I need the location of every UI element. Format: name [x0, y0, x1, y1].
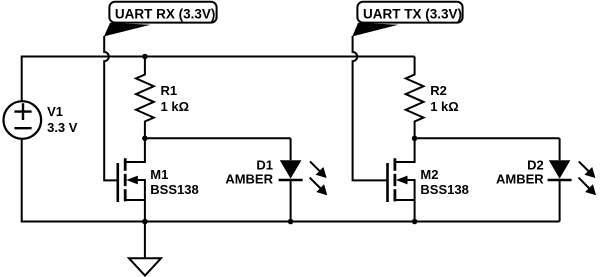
- svg-text:1 kΩ: 1 kΩ: [430, 99, 459, 114]
- wire M2 drain lead: [395, 138, 415, 162]
- svg-text:D1: D1: [256, 158, 273, 173]
- callout tail UART TX: [352, 23, 398, 37]
- transistor M1 arrow: [126, 176, 138, 185]
- wire net UART TX vertical with hop over top rail, to M2 gate: [353, 36, 388, 180]
- label M1 value: [150, 167, 198, 197]
- junction node bottom rail D1: [288, 219, 294, 225]
- wire bottom rail: [22, 221, 560, 223]
- svg-text:UART TX (3.3V): UART TX (3.3V): [363, 6, 462, 21]
- light arrowhead D2 b: [585, 184, 596, 195]
- resistor R1: [136, 57, 154, 139]
- label R2 value: [430, 83, 459, 114]
- svg-text:BSS138: BSS138: [420, 182, 468, 197]
- light arrow D1 a: [310, 161, 321, 172]
- light arrow D2 b: [579, 178, 591, 190]
- wire D2 vertical top: [559, 138, 561, 160]
- diode D2 triangle: [549, 160, 571, 178]
- wire V1 bottom lead to bottom rail: [21, 139, 23, 223]
- transistor M1: [117, 163, 120, 202]
- svg-text:R1: R1: [161, 83, 178, 98]
- svg-text:D2: D2: [527, 158, 544, 173]
- label V1 value: [47, 104, 78, 135]
- svg-text:R2: R2: [430, 83, 447, 98]
- wire top rail: [22, 56, 415, 58]
- transistor M2: [386, 163, 389, 202]
- junction node bottom rail M1 source / ground: [142, 219, 148, 225]
- light arrow D1 b: [310, 178, 322, 190]
- wire D1 vertical top: [290, 138, 292, 160]
- light arrow D2 a: [579, 161, 590, 172]
- svg-text:V1: V1: [47, 104, 63, 119]
- callout box UART TX (3.3V): [357, 2, 462, 23]
- svg-text:1 kΩ: 1 kΩ: [161, 99, 190, 114]
- callout box UART RX (3.3V): [109, 2, 216, 23]
- svg-text:AMBER: AMBER: [225, 172, 273, 187]
- wire M1 drain lead: [125, 138, 145, 162]
- diode D1 triangle: [280, 160, 302, 178]
- label D2 value: [496, 158, 544, 187]
- ground: [129, 222, 161, 276]
- wire R1 bottom to D1 top: [145, 137, 291, 139]
- junction node R1 bottom: [142, 136, 148, 142]
- voltage source V1: [4, 101, 42, 139]
- light arrowhead D1 b: [316, 184, 327, 195]
- light arrowhead D1 a: [316, 167, 327, 178]
- svg-text:M1: M1: [150, 167, 168, 182]
- wire R2 bottom to D2 top: [415, 137, 560, 139]
- junction node bottom rail M2 source: [412, 219, 418, 225]
- label R1 value: [161, 83, 190, 114]
- label M2 value: [420, 167, 468, 197]
- svg-text:BSS138: BSS138: [150, 182, 198, 197]
- svg-text:M2: M2: [420, 167, 438, 182]
- svg-text:AMBER: AMBER: [496, 172, 544, 187]
- transistor M2 arrow: [396, 176, 408, 185]
- svg-text:UART RX (3.3V): UART RX (3.3V): [115, 6, 216, 21]
- wire left vertical (V1 top lead): [21, 56, 23, 102]
- svg-text:3.3 V: 3.3 V: [47, 120, 78, 135]
- label D1 value: [225, 158, 273, 187]
- junction node R2 bottom: [412, 136, 418, 142]
- callout tail UART RX: [104, 23, 151, 37]
- resistor R2: [406, 57, 424, 139]
- diode D1 cathode bar and lead to bottom rail: [279, 179, 303, 182]
- light arrowhead D2 a: [584, 167, 595, 178]
- diode D2 cathode bar and lead to bottom rail: [548, 179, 572, 182]
- junction node on top rail at R1: [142, 54, 148, 60]
- wire net UART RX vertical with hop over top rail, to M1 gate: [104, 36, 118, 180]
